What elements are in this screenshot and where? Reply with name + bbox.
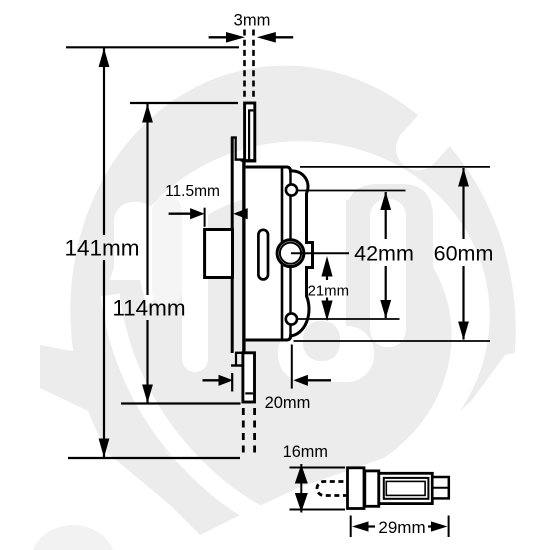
dimension 42mm bbox=[354, 192, 414, 319]
dimension 141mm extension line top bbox=[66, 46, 239, 48]
extension line 60mm bottom bbox=[294, 340, 491, 342]
spindle component: label 16mm bbox=[283, 443, 328, 461]
spindle leader line bbox=[291, 252, 349, 254]
svg-text:141mm: 141mm bbox=[64, 236, 139, 261]
screw hole top bbox=[286, 184, 297, 195]
spindle shaft hidden dashed bbox=[317, 482, 352, 496]
lock case body bbox=[246, 167, 313, 340]
spindle hub bbox=[277, 240, 304, 267]
svg-text:29mm: 29mm bbox=[378, 518, 425, 537]
svg-text:42mm: 42mm bbox=[354, 242, 414, 266]
spindle component body bbox=[379, 473, 433, 503]
dimension 114mm extension line top bbox=[130, 102, 238, 104]
dimension 3mm arrows bbox=[209, 32, 294, 43]
label 114mm bbox=[112, 296, 185, 321]
faceplate top section bbox=[241, 103, 257, 161]
back plate bottom hook bbox=[231, 353, 246, 366]
extension line 42mm top / screw leader bbox=[296, 190, 406, 192]
spindle component flange bbox=[348, 468, 365, 509]
back plate top bbox=[231, 138, 246, 354]
svg-text:3mm: 3mm bbox=[234, 12, 271, 30]
screw hole bottom bbox=[286, 313, 297, 324]
svg-text:20mm: 20mm bbox=[265, 394, 311, 412]
svg-text:21mm: 21mm bbox=[308, 283, 349, 299]
svg-text:60mm: 60mm bbox=[434, 242, 494, 266]
dimension 114mm extension line bottom bbox=[121, 402, 241, 404]
dimension 141mm extension line bottom bbox=[68, 457, 240, 459]
dimension 16mm bbox=[290, 464, 346, 513]
dimension 114mm vertical line and arrows bbox=[142, 104, 153, 403]
back plate mid line bbox=[242, 161, 245, 353]
dimension 29mm bbox=[351, 516, 449, 538]
faceplate bottom section bbox=[243, 353, 255, 402]
extension line 60mm top bbox=[300, 166, 490, 168]
dimension 141mm vertical line and arrows bbox=[99, 48, 110, 458]
dimension 11.5mm bbox=[165, 183, 248, 227]
dimension 60mm bbox=[434, 168, 494, 340]
dimension 20mm bbox=[203, 345, 332, 413]
label 141mm bbox=[64, 236, 139, 261]
svg-text:16mm: 16mm bbox=[283, 443, 328, 461]
keyway slot bbox=[258, 230, 268, 280]
centerline dashed bottom bbox=[243, 408, 254, 456]
label 3mm bbox=[234, 12, 271, 30]
spindle component stub bbox=[432, 477, 449, 498]
dimension 21mm bbox=[308, 256, 349, 321]
extension line 42mm bottom / screw leader bbox=[297, 318, 400, 320]
svg-text:114mm: 114mm bbox=[112, 296, 185, 321]
svg-text:11.5mm: 11.5mm bbox=[165, 183, 220, 200]
spindle component collar bbox=[365, 471, 379, 506]
latch bolt bbox=[205, 230, 233, 278]
centerline dashed top bbox=[245, 30, 254, 98]
